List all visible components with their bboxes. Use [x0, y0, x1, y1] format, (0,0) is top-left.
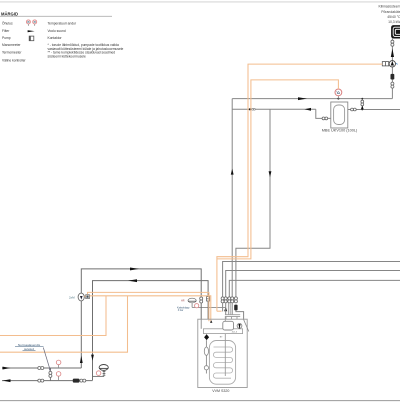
unit bypass diagonal	[244, 319, 249, 331]
cold water check arrow	[224, 307, 227, 312]
valve on E	[38, 379, 44, 382]
caption leader	[43, 348, 50, 370]
tank coil serpentine	[213, 347, 232, 378]
heating supply pipe D	[2, 367, 81, 369]
heating return riser with jog	[236, 109, 270, 297]
svg-text:Filter: Filter	[2, 29, 10, 33]
legend air-vent symbol 2	[33, 20, 37, 26]
valve on D	[38, 367, 44, 370]
unit top vent arrow	[210, 320, 212, 323]
flow arrow up	[231, 169, 234, 175]
sensor on D	[56, 360, 61, 368]
svg-text:45/40 °C: 45/40 °C	[387, 15, 400, 19]
supply main line A	[232, 98, 392, 100]
flow arrow up on riser 1	[80, 356, 83, 363]
legend description column	[48, 22, 124, 59]
heat circuit return line L2	[93, 281, 209, 381]
orange branch to room unit 1	[0, 296, 106, 336]
svg-text:VVM S320: VVM S320	[212, 389, 229, 393]
orange control line P2	[90, 296, 211, 322]
legend flow-direction arrow	[28, 30, 35, 32]
svg-text:3 bar: 3 bar	[178, 309, 184, 312]
svg-text:Pump: Pump	[2, 36, 11, 40]
buffer tank MBE UKV100	[331, 102, 348, 128]
filter on riser	[391, 74, 395, 80]
filter-ball F on riser 1	[78, 293, 84, 301]
radiator circuit line 3	[229, 280, 400, 297]
flow arrow down	[269, 171, 272, 177]
valve row above unit	[221, 297, 237, 303]
svg-text:Kliimasüsteem: Kliimasüsteem	[378, 5, 400, 9]
unit left drop	[200, 319, 202, 329]
valve on L1 drop	[200, 297, 203, 303]
climate system label block (clipped at right edge)	[378, 5, 400, 25]
svg-text:süsteemi küttekoormusele: süsteemi küttekoormusele	[48, 54, 86, 58]
valve after filter	[80, 379, 86, 382]
coil feed pipe	[224, 317, 226, 377]
line continuation below valves	[222, 303, 224, 312]
unit module box	[223, 321, 234, 330]
riser pipe to coil	[391, 38, 393, 98]
svg-text:Õhutus: Õhutus	[2, 21, 13, 26]
orange control line R1 to pump	[217, 64, 382, 311]
heat circuit supply line L1	[81, 269, 201, 368]
flow arrow on line A	[298, 97, 307, 100]
unit mixing diamond	[204, 334, 209, 340]
drain node on line B	[249, 108, 251, 110]
indoor unit VVM S320 box	[198, 319, 247, 387]
bypass normally closed	[49, 368, 52, 381]
legend contactor box	[29, 36, 34, 41]
safety group line	[192, 306, 226, 308]
elbow from filter into unit	[236, 310, 244, 319]
return main line B	[232, 108, 316, 110]
unit pump	[237, 323, 242, 329]
svg-text:Termomeeter: Termomeeter	[2, 51, 22, 55]
shutoff valve below coil	[391, 40, 394, 46]
flow arrow up to coil	[391, 49, 394, 58]
legend term column	[2, 21, 27, 63]
drain valve on line B	[252, 108, 256, 110]
unit manifold	[203, 329, 242, 334]
bypass stub with check valve	[361, 98, 364, 111]
svg-text:MÄRGID: MÄRGID	[1, 11, 18, 16]
heating return pipe E	[2, 380, 93, 382]
line B jog down to tank	[316, 109, 331, 118]
orange control line P1	[88, 292, 209, 321]
frame bottom rule	[0, 400, 400, 402]
unit internal tank	[209, 341, 235, 385]
expansion vessel small	[188, 298, 196, 307]
pump actuator box	[382, 62, 388, 66]
temperature sensor BT25	[335, 89, 342, 99]
contactor box at riser	[86, 295, 90, 299]
svg-text:10,3 kW: 10,3 kW	[388, 20, 400, 24]
flow arrow right	[130, 268, 139, 271]
svg-text:Põrandaküte: Põrandaküte	[381, 10, 400, 14]
arrow right on D	[3, 367, 11, 370]
svg-text:4x1,5: 4x1,5	[232, 331, 238, 333]
svg-text:HR: HR	[181, 300, 185, 303]
check valve on L2 drop	[207, 297, 210, 301]
orange stub vent-box	[84, 295, 85, 297]
shutoff valve on riser	[391, 82, 394, 88]
flow arrow left	[128, 279, 137, 282]
radiator circuit line 2	[226, 271, 400, 298]
orange branch to room unit 2	[0, 296, 128, 352]
floor heating coil	[391, 25, 400, 38]
arrow left on E	[3, 379, 11, 382]
tank outlet valve	[351, 108, 357, 111]
frame top rule	[0, 1, 400, 3]
legend air-vent symbol 1	[26, 20, 30, 26]
safety group caption	[177, 306, 190, 312]
legend header rule	[0, 15, 112, 17]
svg-text:suletud: suletud	[24, 347, 34, 351]
filter on E	[73, 379, 80, 383]
expansion vessel group	[93, 365, 109, 377]
tank inlet valve	[322, 117, 328, 120]
manifold pipe above unit	[225, 315, 240, 320]
pressure gauge	[195, 304, 199, 308]
svg-text:Temperatuuri andur: Temperatuuri andur	[48, 22, 77, 26]
circulation pump	[389, 61, 398, 67]
heating supply riser	[231, 99, 233, 298]
tank outlet line C	[348, 109, 400, 111]
svg-text:MBE UKV100 (100L): MBE UKV100 (100L)	[322, 128, 358, 132]
svg-text:2xM: 2xM	[69, 295, 75, 299]
orange control line R2 to sensor	[217, 80, 339, 259]
caption normally closed	[18, 343, 41, 351]
flow arrow down on riser 2	[91, 355, 94, 361]
svg-text:Väline kontroller: Väline kontroller	[2, 58, 27, 62]
svg-text:BT: BT	[220, 336, 223, 338]
unit diamond feed	[206, 333, 208, 336]
orange R1 elbow	[217, 310, 222, 312]
svg-text:Kontaktor: Kontaktor	[48, 36, 63, 40]
sensor on E	[56, 372, 61, 381]
svg-text:Manomeeter: Manomeeter	[2, 43, 21, 47]
junction node on line A	[337, 98, 339, 100]
radiator circuit line 1	[223, 262, 400, 298]
unit internal pump oval	[204, 340, 208, 373]
filter before unit	[234, 305, 237, 311]
svg-text:Voolu suund: Voolu suund	[48, 29, 66, 33]
flow arrow on line B	[304, 108, 311, 111]
